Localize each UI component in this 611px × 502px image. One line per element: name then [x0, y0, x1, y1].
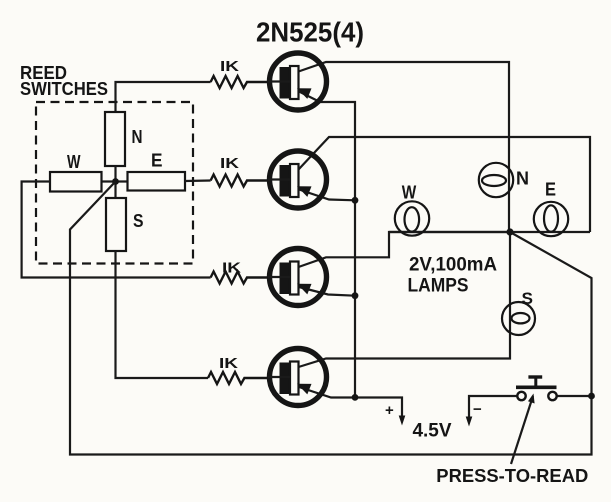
wire N bottom to S top through center	[114, 166, 116, 198]
svg-text:IK: IK	[222, 260, 241, 277]
junction switch bus	[588, 393, 595, 400]
transistor Q3 emitter wire	[299, 287, 355, 296]
wire lamp row horizontal	[389, 231, 590, 233]
lamp S	[502, 302, 535, 335]
wire W right to E left through center	[102, 180, 128, 182]
wire reed common diagonal to left bus	[70, 182, 592, 455]
resistor R3 1K	[211, 272, 270, 284]
svg-text:N: N	[516, 168, 529, 189]
svg-text:2V,100mA: 2V,100mA	[409, 255, 497, 276]
junction emitter bus bottom	[352, 394, 359, 401]
svg-text:LAMPS: LAMPS	[408, 276, 469, 297]
reed switch N	[105, 112, 125, 166]
svg-text:E: E	[151, 151, 163, 171]
svg-text:E: E	[545, 180, 556, 200]
svg-text:W: W	[402, 182, 417, 203]
wire E reed right to row2	[185, 179, 211, 182]
transistor Q3	[268, 249, 327, 306]
resistor R1 1K	[211, 76, 270, 88]
pushbutton switch bar	[516, 385, 557, 389]
transistor Q4	[268, 349, 327, 406]
reed switch S	[106, 198, 126, 251]
transistor Q2 emitter wire	[299, 190, 355, 201]
lamp W	[395, 201, 429, 235]
junction emitter bus row3	[352, 292, 359, 299]
resistor R4 1K	[208, 372, 268, 384]
wire S reed bottom to row4	[116, 251, 209, 378]
junction reed common	[112, 178, 119, 185]
pointer line press-to-read	[511, 396, 533, 464]
svg-text:N: N	[132, 127, 143, 147]
svg-text:S: S	[522, 289, 534, 308]
svg-text:IK: IK	[219, 355, 238, 372]
svg-text:SWITCHES: SWITCHES	[20, 79, 108, 99]
battery positive arrow	[399, 416, 406, 426]
reed switch W	[50, 172, 102, 192]
lamp N	[479, 163, 513, 197]
svg-text:+: +	[385, 402, 394, 419]
transistor Q1 collector wire	[299, 62, 510, 232]
junction lamp common	[506, 228, 513, 235]
svg-text:4.5V: 4.5V	[413, 420, 452, 441]
lamp E	[534, 202, 568, 236]
svg-text:−: −	[473, 401, 482, 418]
transistor Q4 collector wire	[299, 232, 511, 367]
svg-text:IK: IK	[220, 155, 239, 172]
battery negative arrow	[466, 417, 473, 427]
reed switch E	[128, 172, 186, 191]
wire switch right contact to bus	[557, 395, 592, 397]
junction emitter bus row2	[352, 197, 359, 204]
svg-text:2N525(4): 2N525(4)	[256, 17, 364, 48]
transistor Q1 emitter wire	[299, 92, 355, 398]
battery negative wire	[469, 396, 517, 419]
svg-text:PRESS-TO-READ: PRESS-TO-READ	[436, 465, 588, 486]
wire N reed top to row1	[116, 82, 211, 112]
svg-text:S: S	[133, 211, 144, 231]
transistor Q4 emitter wire	[299, 387, 402, 419]
svg-text:IK: IK	[220, 58, 239, 75]
transistor Q2	[268, 151, 327, 208]
resistor R2 1K	[211, 175, 270, 187]
pushbutton switch contacts	[517, 392, 525, 400]
transistor Q2 collector wire	[299, 137, 591, 232]
pushbutton switch cap	[528, 375, 542, 378]
pushbutton switch stem	[534, 377, 537, 387]
transistor Q1	[268, 53, 327, 110]
dashed enclosure around reed switches	[36, 102, 193, 264]
svg-text:W: W	[67, 152, 81, 172]
transistor Q3 collector wire	[299, 232, 511, 267]
wire W reed left to row3	[22, 182, 211, 278]
